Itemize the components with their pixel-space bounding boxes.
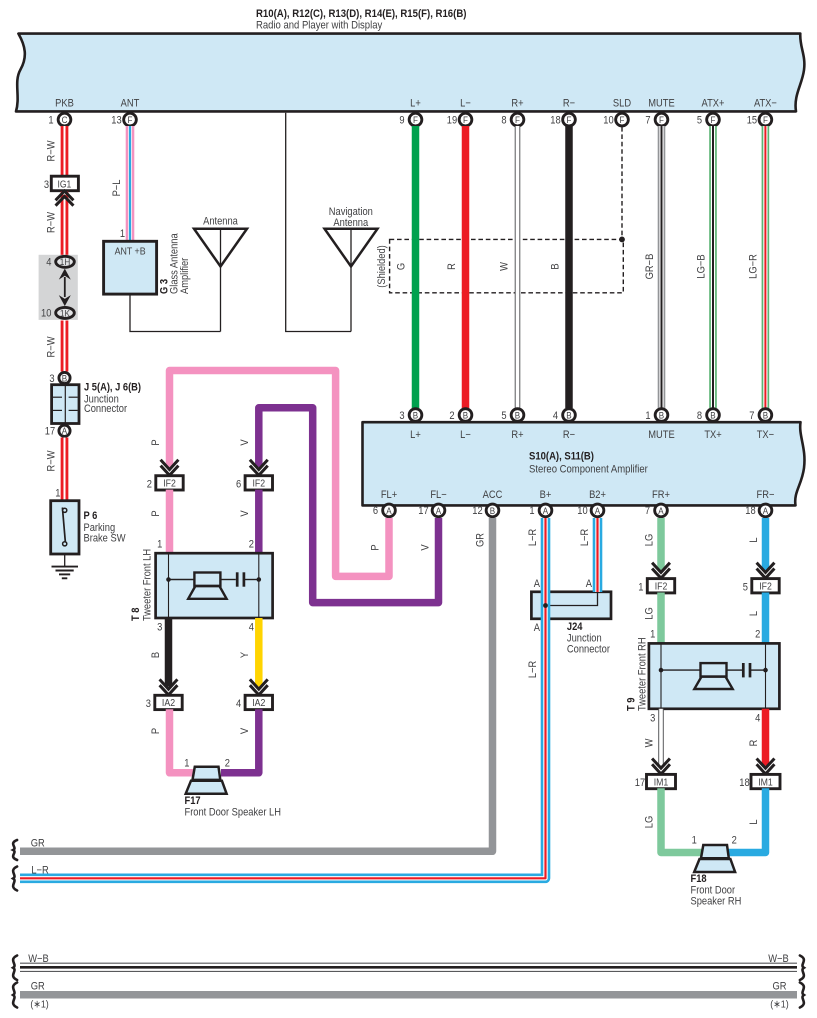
svg-text:A: A [436, 505, 441, 516]
wire G from radio L+ to amplifier L+ [412, 126, 420, 408]
svg-text:L−R: L−R [579, 529, 591, 546]
chevron above IF2 connector 1 [653, 564, 669, 578]
wire R-W from 1K to junction connector [61, 321, 69, 372]
svg-text:W: W [644, 738, 656, 747]
svg-text:Amplifier: Amplifier [179, 257, 191, 294]
amplifier bottom terminal 12 (B) ACC [472, 504, 499, 517]
instrument panel wire / floor wire connector block 1H-1K [39, 255, 78, 320]
continuation brace for GR wire [13, 840, 17, 860]
svg-text:Tweeter Front LH: Tweeter Front LH [142, 549, 154, 621]
svg-text:B: B [463, 410, 468, 421]
svg-text:A: A [658, 505, 663, 516]
trunk wire GR across bottom [20, 991, 797, 999]
svg-text:Connector: Connector [84, 403, 128, 415]
radio pin ATX+ terminal 5 (F) [697, 113, 719, 126]
svg-text:1K: 1K [60, 308, 70, 319]
T 8 pin numbers 1 2 3 4 [157, 539, 254, 634]
wire L-R from amplifier B+ through J24 to left continuation [20, 518, 546, 878]
antenna symbol [194, 216, 247, 332]
svg-text:PKB: PKB [55, 98, 74, 110]
connector IF2 pin 1 [638, 579, 674, 594]
junction connector terminal A pin 17 [45, 425, 70, 438]
svg-text:L−R: L−R [31, 865, 48, 877]
connector IA2 pin 4 [236, 695, 272, 710]
svg-text:F: F [659, 114, 664, 125]
svg-text:4: 4 [46, 257, 51, 269]
wire from glass antenna amplifier to antenna [130, 294, 221, 331]
svg-text:IF2: IF2 [252, 478, 265, 490]
junction connector terminal B pin 3 [49, 372, 70, 385]
svg-text:IF2: IF2 [655, 581, 668, 593]
svg-text:Antenna: Antenna [203, 216, 238, 228]
wire P from IA2 to front door speaker LH pin 1 [170, 709, 194, 773]
svg-text:3: 3 [44, 179, 49, 191]
connector IF2 pin 6 [236, 476, 272, 491]
svg-text:C: C [62, 114, 68, 125]
svg-text:R+: R+ [511, 429, 523, 441]
wire Y from T 8 pin 4 to IA2 connector 4 [255, 618, 263, 687]
wire GR-B from radio MUTE to amplifier MUTE [658, 126, 666, 408]
svg-text:ANT +B: ANT +B [115, 246, 146, 258]
svg-text:V: V [240, 728, 252, 734]
svg-text:2: 2 [225, 758, 230, 770]
wire LG from amplifier FR+ to IF2 connector 1 [657, 518, 665, 570]
svg-text:5: 5 [697, 115, 702, 127]
svg-text:F: F [515, 114, 520, 125]
svg-text:GR: GR [773, 981, 787, 993]
svg-text:7: 7 [749, 410, 754, 422]
radio pin ATX- terminal 15 (F) [747, 113, 772, 126]
wire from radio to navigation antenna [286, 113, 351, 332]
wire LG from IF2 to tweeter front RH pin 1 [657, 593, 665, 644]
svg-text:P−L: P−L [111, 179, 123, 196]
svg-text:A: A [62, 426, 67, 437]
svg-text:Radio and Player with Display: Radio and Player with Display [256, 20, 383, 32]
chevron above IA2 connector 3 [161, 681, 177, 695]
svg-text:17: 17 [635, 777, 646, 789]
svg-text:1: 1 [650, 629, 655, 641]
svg-text:(∗1): (∗1) [770, 999, 788, 1011]
wire LG-R from radio ATX- to amplifier TX- [762, 126, 770, 408]
wire P from IF2 to tweeter front LH pin 1 [166, 490, 174, 554]
svg-text:L−: L− [460, 98, 471, 110]
amplifier bottom terminal 1 (A) B+ [529, 504, 551, 517]
svg-text:10: 10 [577, 506, 588, 518]
svg-text:2: 2 [249, 539, 254, 551]
svg-text:3: 3 [146, 698, 151, 710]
svg-text:B: B [763, 410, 768, 421]
ground symbol below parking brake switch [52, 554, 79, 578]
tweeter front RH T 9 box [649, 643, 780, 708]
svg-text:B+: B+ [540, 489, 552, 501]
svg-text:1: 1 [184, 758, 189, 770]
svg-text:GR: GR [31, 981, 45, 993]
svg-text:IA2: IA2 [162, 698, 175, 710]
svg-text:B: B [413, 410, 418, 421]
svg-text:G: G [396, 263, 408, 270]
svg-text:A: A [763, 505, 768, 516]
svg-text:J24: J24 [567, 621, 583, 633]
svg-text:L+: L+ [410, 429, 421, 441]
svg-text:FL−: FL− [430, 489, 446, 501]
connector IM1 pin 18 [739, 774, 780, 789]
svg-text:1: 1 [692, 835, 697, 847]
svg-text:1: 1 [529, 506, 534, 518]
svg-text:13: 13 [111, 115, 122, 127]
svg-text:18: 18 [745, 506, 756, 518]
svg-text:IM1: IM1 [758, 777, 773, 789]
amplifier bottom terminal 7 (A) FR+ [645, 504, 667, 517]
wire V from IF2 to tweeter front LH pin 2 [255, 490, 263, 554]
svg-text:3: 3 [49, 373, 54, 385]
radio pin R+ terminal 8 (F) [501, 113, 523, 126]
chevron up below IG1 [57, 191, 73, 205]
amplifier top terminal 7 (B) TX- [749, 409, 771, 422]
svg-text:W: W [499, 262, 511, 271]
wire L-R from amplifier B2+ to J24 [593, 518, 603, 592]
svg-text:B2+: B2+ [589, 489, 606, 501]
svg-text:5: 5 [743, 582, 748, 594]
svg-text:LG: LG [644, 607, 656, 620]
svg-text:A: A [586, 578, 592, 590]
wire L from amplifier FR- to IF2 connector 5 [762, 518, 770, 570]
svg-text:L−: L− [460, 429, 471, 441]
svg-text:R−W: R−W [46, 212, 58, 233]
svg-text:4: 4 [553, 410, 558, 422]
svg-text:ACC: ACC [483, 489, 503, 501]
radio pin MUTE terminal 7 (F) [645, 113, 667, 126]
wire B from T 8 pin 3 to IA2 connector 3 [165, 618, 173, 687]
svg-text:V: V [240, 439, 252, 445]
svg-text:Speaker RH: Speaker RH [691, 896, 742, 908]
svg-text:TX+: TX+ [704, 429, 721, 441]
radio pin ANT terminal 13 (F) [111, 113, 136, 126]
svg-text:P: P [150, 510, 162, 516]
wire P-L from ANT pin 13 to glass antenna amplifier [126, 126, 135, 242]
svg-text:W−B: W−B [28, 953, 49, 965]
radio pin R- terminal 18 (F) [550, 113, 575, 126]
radio pin PKB terminal 1 (C) [48, 113, 70, 126]
svg-text:GR: GR [475, 533, 487, 547]
wire V from amplifier FL- to IF2 connector 6 [259, 408, 439, 603]
svg-text:L: L [749, 819, 761, 824]
svg-text:Stereo Component Amplifier: Stereo Component Amplifier [529, 464, 648, 476]
svg-text:F: F [413, 114, 418, 125]
svg-text:4: 4 [755, 713, 760, 725]
amplifier bottom terminal 6 (A) FL+ [373, 504, 395, 517]
wire GR from amplifier ACC to left continuation [20, 518, 493, 851]
radio pin SLD terminal 10 (F) [603, 113, 628, 126]
svg-text:3: 3 [157, 622, 162, 634]
svg-text:A: A [543, 505, 548, 516]
svg-text:8: 8 [697, 410, 702, 422]
chevron above IM1 connector 17 [653, 760, 669, 774]
svg-text:3: 3 [399, 410, 404, 422]
radio pin L- terminal 19 (F) [447, 113, 472, 126]
svg-text:4: 4 [249, 622, 254, 634]
connector IA2 pin 3 [146, 695, 182, 710]
svg-text:F: F [711, 114, 716, 125]
dashed wire from SLD pin 10 to shield box [621, 127, 623, 239]
amplifier top terminal 3 (B) L+ [399, 409, 421, 422]
svg-text:ANT: ANT [121, 98, 140, 110]
svg-text:12: 12 [472, 506, 483, 518]
amplifier top terminal 1 (B) MUTE [645, 409, 667, 422]
tweeter front LH T 8 box [156, 553, 273, 618]
svg-text:IF2: IF2 [163, 478, 176, 490]
continuation brace left for bottom GR [13, 983, 17, 1008]
wire L from IM1 to front door speaker RH pin 2 [729, 788, 766, 852]
amplifier top terminal 4 (B) R- [553, 409, 575, 422]
wire B from radio R- to amplifier R- [565, 126, 573, 408]
connector IF2 pin 5 [743, 579, 779, 594]
svg-text:B: B [550, 263, 562, 269]
svg-text:5: 5 [501, 410, 506, 422]
svg-text:FL+: FL+ [381, 489, 397, 501]
svg-text:L: L [749, 537, 761, 542]
radio pin L+ terminal 9 (F) [399, 113, 421, 126]
svg-text:L−R: L−R [527, 661, 539, 678]
svg-text:Y: Y [240, 652, 252, 658]
svg-text:17: 17 [418, 506, 429, 518]
svg-text:J 5(A), J 6(B): J 5(A), J 6(B) [84, 382, 141, 394]
wire L from IF2 to tweeter front RH pin 2 [762, 593, 770, 644]
svg-text:R: R [446, 263, 458, 270]
svg-text:3: 3 [650, 713, 655, 725]
svg-text:B: B [710, 410, 715, 421]
continuation brace for L-R wire [13, 867, 17, 891]
svg-text:A: A [534, 622, 540, 634]
amplifier top terminal 5 (B) R+ [501, 409, 523, 422]
svg-text:F: F [463, 114, 468, 125]
capacitor symbol inside T 8 [237, 572, 244, 586]
wire W from radio R+ to amplifier R+ [515, 126, 521, 408]
svg-text:18: 18 [550, 115, 561, 127]
amplifier top terminal 2 (B) L- [449, 409, 471, 422]
continuation brace left for W-B [13, 956, 17, 981]
svg-text:F18: F18 [691, 874, 707, 886]
svg-text:B: B [515, 410, 520, 421]
svg-text:F17: F17 [185, 795, 201, 807]
svg-text:B: B [62, 373, 67, 384]
svg-text:GR−B: GR−B [644, 253, 656, 279]
svg-text:17: 17 [45, 426, 56, 438]
svg-text:IM1: IM1 [654, 777, 669, 789]
labels T 9 Tweeter Front RH [626, 637, 649, 711]
shield dashed box (Shielded) [376, 239, 623, 292]
junction dot where SLD meets shield box [619, 237, 625, 243]
double-headed arrow between 1H and 1K [59, 269, 71, 307]
amplifier bottom terminal 10 (A) B2+ [577, 504, 604, 517]
wire R from T 9 pin 4 to IM1 connector 18 [762, 709, 770, 766]
svg-text:1H: 1H [60, 257, 70, 268]
wire LG from IM1 to front door speaker RH pin 1 [661, 788, 702, 852]
fuse box IG1 pin 3 [44, 176, 78, 191]
svg-text:A: A [386, 505, 391, 516]
svg-text:8: 8 [501, 115, 506, 127]
amplifier top terminal 8 (B) TX+ [697, 409, 719, 422]
svg-text:R−W: R−W [46, 336, 58, 357]
svg-text:6: 6 [373, 506, 378, 518]
amplifier band S10(A), S11(B) Stereo Component Amplifier [363, 422, 805, 505]
wire R from radio L- to amplifier L- [462, 126, 470, 408]
front door speaker LH F17 symbol [186, 767, 227, 794]
svg-text:Antenna: Antenna [333, 217, 368, 229]
svg-text:10: 10 [603, 115, 614, 127]
svg-text:L: L [749, 611, 761, 616]
svg-text:MUTE: MUTE [648, 429, 675, 441]
wire V from IA2 to front door speaker LH pin 2 [221, 709, 259, 773]
chevron above IF2 connector 5 [758, 564, 774, 578]
svg-text:(Shielded): (Shielded) [376, 245, 388, 288]
chevron above IF2 connector 6 [251, 461, 267, 475]
navigation antenna symbol [325, 206, 378, 331]
svg-text:2: 2 [755, 629, 760, 641]
svg-text:F: F [620, 114, 625, 125]
svg-text:L−R: L−R [527, 529, 539, 546]
svg-text:ATX+: ATX+ [702, 98, 725, 110]
wire P from amplifier FL+ to IF2 connector 2 [170, 371, 390, 577]
speaker symbol inside T 8 [188, 573, 226, 599]
svg-text:A: A [595, 505, 600, 516]
svg-text:B: B [490, 505, 495, 516]
svg-text:Connector: Connector [567, 644, 611, 656]
svg-text:B: B [659, 410, 664, 421]
svg-text:1: 1 [157, 539, 162, 551]
svg-text:A: A [534, 578, 540, 590]
svg-text:(∗1): (∗1) [30, 999, 48, 1011]
T 9 pin numbers 1 2 3 4 [650, 629, 760, 725]
svg-text:1: 1 [55, 488, 60, 500]
labels F18 Front Door Speaker RH [691, 874, 742, 908]
svg-text:P: P [370, 544, 382, 550]
svg-text:1: 1 [48, 115, 53, 127]
svg-text:GR: GR [31, 838, 45, 850]
svg-text:F: F [128, 114, 133, 125]
trunk wire W-B across bottom [20, 963, 797, 972]
svg-text:F: F [567, 114, 572, 125]
svg-text:18: 18 [739, 777, 750, 789]
svg-text:FR−: FR− [757, 489, 775, 501]
chevron above IF2 connector 2 [162, 461, 178, 475]
svg-text:6: 6 [236, 479, 241, 491]
svg-text:LG−R: LG−R [748, 254, 760, 279]
svg-text:15: 15 [747, 115, 758, 127]
svg-text:1: 1 [645, 410, 650, 422]
svg-text:TX−: TX− [757, 429, 774, 441]
svg-text:7: 7 [645, 115, 650, 127]
svg-text:MUTE: MUTE [648, 98, 675, 110]
svg-text:L+: L+ [410, 98, 421, 110]
svg-text:S10(A), S11(B): S10(A), S11(B) [529, 451, 594, 463]
continuation brace right for W-B [800, 956, 804, 981]
svg-text:B: B [566, 410, 571, 421]
svg-text:P: P [150, 439, 162, 445]
svg-text:V: V [240, 510, 252, 516]
wire R-W from PKB pin 1 to IG1 [61, 126, 69, 178]
svg-text:1: 1 [120, 228, 125, 240]
svg-text:P 6: P 6 [84, 511, 98, 523]
svg-text:ATX−: ATX− [754, 98, 777, 110]
svg-text:LG−B: LG−B [696, 254, 708, 278]
junction connector J 5(A), J 6(B) [52, 382, 141, 424]
amplifier bottom terminal 18 (A) FR- [745, 504, 772, 517]
speaker symbol inside T 9 [694, 663, 732, 689]
junction dot in J24 [543, 603, 548, 608]
continuation brace right for bottom GR [800, 983, 804, 1008]
svg-text:V: V [420, 544, 432, 550]
connector IM1 pin 17 [635, 774, 676, 789]
glass antenna amplifier G 3 (ANT +B) [104, 233, 192, 294]
svg-text:LG: LG [644, 534, 656, 547]
svg-text:R−: R− [563, 429, 575, 441]
svg-text:Brake SW: Brake SW [84, 533, 126, 545]
svg-text:7: 7 [645, 506, 650, 518]
svg-text:B: B [150, 652, 162, 658]
svg-text:9: 9 [399, 115, 404, 127]
connector oval 1K pin 10 [41, 307, 74, 319]
chevron above IM1 connector 18 [758, 760, 774, 774]
labels T 8 Tweeter Front LH [130, 549, 154, 621]
svg-text:IA2: IA2 [252, 698, 265, 710]
svg-text:W−B: W−B [768, 953, 789, 965]
connector IF2 pin 2 [147, 476, 183, 491]
svg-text:R+: R+ [511, 98, 523, 110]
svg-text:10: 10 [41, 308, 52, 320]
svg-text:LG: LG [644, 816, 656, 829]
svg-text:R10(A), R12(C), R13(D), R14(E): R10(A), R12(C), R13(D), R14(E), R15(F), … [256, 8, 466, 20]
radio band R10/R12/R13/R14/R15/R16 Radio and Player with Display [16, 8, 804, 111]
svg-text:Front Door Speaker LH: Front Door Speaker LH [185, 807, 281, 819]
wire R-W from junction connector to parking brake switch [61, 438, 69, 502]
amplifier bottom terminal 17 (A) FL- [418, 504, 445, 517]
junction connector J24 box [531, 592, 611, 656]
svg-text:R−W: R−W [46, 140, 58, 161]
connector oval 1H pin 4 [46, 256, 74, 268]
svg-text:2: 2 [147, 479, 152, 491]
F17 pin numbers 1 2 [184, 758, 230, 770]
front door speaker RH F18 symbol [694, 845, 735, 872]
svg-text:4: 4 [236, 698, 241, 710]
labels F17 Front Door Speaker LH [185, 795, 281, 818]
svg-text:SLD: SLD [613, 98, 631, 110]
svg-text:1: 1 [638, 582, 643, 594]
wire LG-B from radio ATX+ to amplifier TX+ [709, 126, 717, 408]
svg-text:19: 19 [447, 115, 458, 127]
svg-text:IG1: IG1 [58, 179, 72, 190]
svg-text:2: 2 [732, 835, 737, 847]
svg-text:P: P [150, 728, 162, 734]
svg-text:R−: R− [563, 98, 575, 110]
chevron above IA2 connector 4 [251, 681, 267, 695]
svg-text:T 8: T 8 [130, 607, 142, 621]
svg-text:2: 2 [449, 410, 454, 422]
svg-text:R: R [749, 740, 761, 747]
wire W from T 9 pin 3 to IM1 connector 17 [658, 709, 664, 766]
capacitor symbol inside T 9 [743, 663, 750, 677]
svg-text:F: F [763, 114, 768, 125]
wire R-W from IG1 to connector 1H [61, 192, 69, 257]
svg-text:FR+: FR+ [652, 489, 670, 501]
svg-text:R−W: R−W [46, 450, 58, 471]
parking brake switch P 6 [51, 501, 126, 554]
svg-text:Tweeter Front RH: Tweeter Front RH [637, 637, 649, 711]
F18 pin numbers 1 2 [692, 835, 737, 847]
svg-text:IF2: IF2 [759, 581, 772, 593]
